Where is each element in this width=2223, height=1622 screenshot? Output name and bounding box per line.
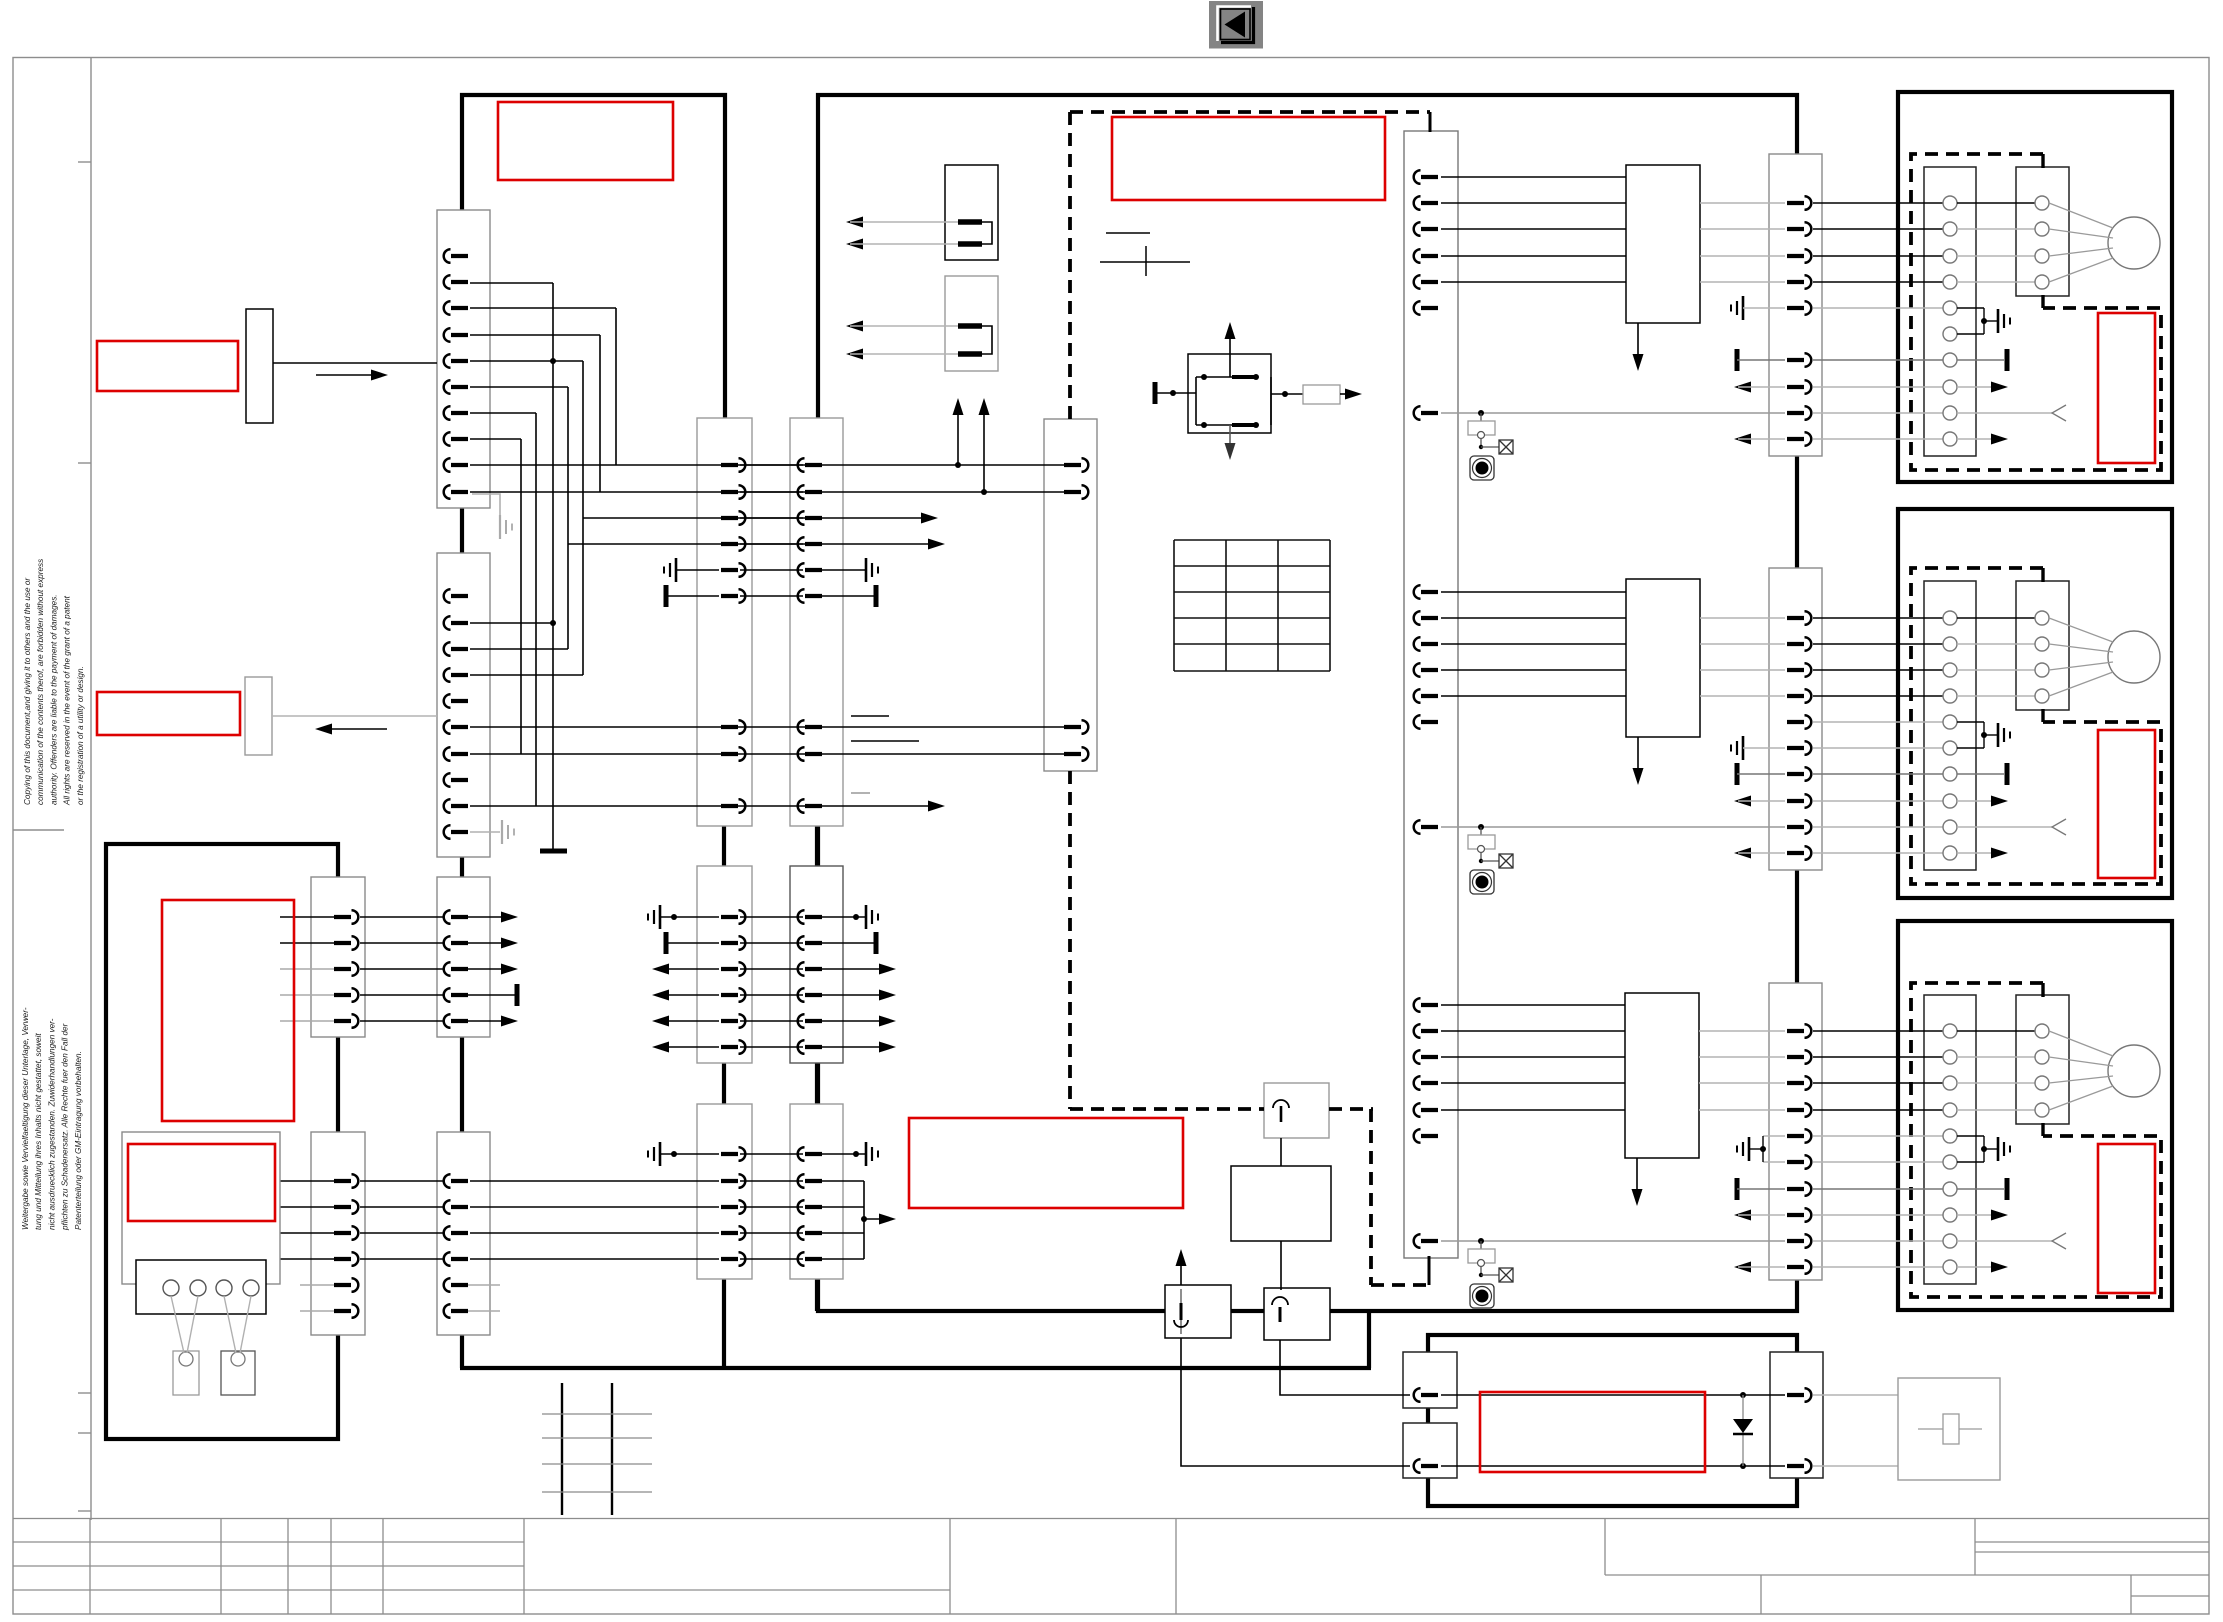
wire strip to pin circle r853 <box>1813 852 1943 854</box>
junction row465 <box>955 462 961 468</box>
junction v1-r361 <box>550 358 556 364</box>
wire row1207 C3-C4 <box>360 1206 444 1208</box>
pin circle A r748 <box>1943 741 1957 755</box>
svg-text:Weitergabe sowie Vervielfaelti: Weitergabe sowie Vervielfaeltigung diese… <box>21 1007 30 1230</box>
wire strip to pin circle r282 <box>1813 281 1943 283</box>
wire L1 to bottom connector <box>1181 1338 1410 1466</box>
pin S1R r387 <box>1787 380 1811 394</box>
pin S2R r748 <box>1787 741 1811 755</box>
junction bus M6 <box>861 1216 867 1222</box>
wire dashes bottom drop <box>1369 1109 1373 1285</box>
inner unit box (gray) <box>122 1132 280 1284</box>
connector strip MID <box>1044 419 1097 771</box>
pin S3R r1083 <box>1787 1076 1811 1090</box>
junction cluster (section 3) <box>1478 1238 1484 1244</box>
wire strip to pin circle r1110 <box>1813 1109 1943 1111</box>
wire row544 with arrow <box>568 543 937 545</box>
arrow left row995 <box>652 990 669 1001</box>
bottom relay box outline (center-bottom) <box>1428 1335 1797 1506</box>
pin S3R r1031 <box>1787 1024 1811 1038</box>
wire thick M4-M6 link <box>815 1061 819 1106</box>
arrow right row1021 <box>458 1020 510 1022</box>
relay K2 link <box>982 326 992 354</box>
label stub row741 <box>851 740 919 742</box>
pin circle B r282 <box>2035 275 2049 289</box>
wire row754 long <box>470 753 1066 755</box>
antenna coupler symbol top <box>1273 1100 1289 1108</box>
arrow below function box F3 <box>1636 1158 1638 1198</box>
connector A box (section 2) <box>1924 581 1976 870</box>
svg-text:nicht ausdruecklich zugestande: nicht ausdruecklich zugestanden. Zuwider… <box>47 1018 56 1230</box>
pin C4 r1311 <box>444 1304 468 1318</box>
pin S3R r1136 <box>1787 1129 1811 1143</box>
relay K2 contact b <box>958 351 982 357</box>
wire row518 M1-M2 gap <box>740 517 803 519</box>
wire row969 C1-C2 <box>360 968 444 970</box>
pin M1 r465 <box>721 458 745 472</box>
highlight red box R6 <box>128 1144 275 1221</box>
wire A1 pin439 feeder <box>470 438 521 440</box>
terminator right (section 3) <box>1957 1188 2004 1190</box>
wire bus vertical v5 <box>567 387 569 649</box>
fold mark tick y463 <box>78 462 91 464</box>
wire from mid-left connector (gray) <box>272 715 437 717</box>
wire strip to pin circle r1083 <box>1813 1082 1943 1084</box>
bottom connector right <box>1770 1352 1823 1478</box>
wire row806 with arrow <box>470 805 937 807</box>
pin circle A r1241 <box>1943 1234 1957 1248</box>
wire strip to pin circle r748 <box>1813 747 1943 749</box>
pin A2 r623 <box>444 616 468 630</box>
pin A1 r439 <box>444 432 468 446</box>
wire row1259 M5-M6 <box>740 1258 803 1260</box>
wire dashes left upper <box>1068 112 1072 419</box>
wire row492 long <box>470 491 1066 493</box>
back navigation button <box>1209 1 1263 49</box>
pin M5 r1207 <box>721 1200 745 1214</box>
pin circle A r282 <box>1943 275 1957 289</box>
wire ECU long to strip (section 3) <box>1441 1240 1785 1242</box>
connector strip C1 <box>311 877 365 1037</box>
wire row1181 long C4-M5 <box>470 1180 719 1182</box>
switch cluster (section 2) <box>1468 827 1499 863</box>
pin M2 r596 <box>798 589 822 603</box>
pin MID r754 <box>1064 747 1088 761</box>
pin A2 r806 <box>444 799 468 813</box>
terminator right (section 1) <box>1957 359 2004 361</box>
wire row1181 M5-M6 <box>740 1180 803 1182</box>
wire strip to pin circle r1031 <box>1813 1030 1943 1032</box>
terminator left of strip (section 1) <box>1735 349 1740 371</box>
pin C4 r1259 <box>444 1252 468 1266</box>
wire strip to pin circle r387 <box>1813 386 1943 388</box>
wires A to B rows (section 3) <box>1957 1030 2035 1032</box>
pin M3 r917 <box>721 910 745 924</box>
pin A1 r387 <box>444 380 468 394</box>
pin S2R r696 <box>1787 689 1811 703</box>
ground at A1 bottom (gray) <box>472 494 500 517</box>
wires function box to strip (section 3) <box>1699 1030 1785 1032</box>
pin circle A r827 <box>1943 820 1957 834</box>
wire thick A2 down-feed <box>460 855 464 1368</box>
pin S3R r1215 <box>1787 1208 1811 1222</box>
pin ECU r1110 <box>1414 1103 1438 1117</box>
arrow right b (section 1) <box>1957 438 2000 440</box>
wire to K2 contact b <box>846 349 863 360</box>
wire harness dashed box B3 <box>1911 983 2161 1297</box>
pin circle A r387 <box>1943 380 1957 394</box>
diode D1 <box>1742 1395 1744 1466</box>
arrow left of strip a (section 1) <box>1734 382 1751 393</box>
pin bottom-right r1395 <box>1787 1388 1811 1402</box>
ground left row1154 <box>648 1142 660 1166</box>
wire thick riser to ECU box <box>1367 1311 1371 1368</box>
wire strip to pin circle r1162 <box>1813 1161 1943 1163</box>
pin circle A r696 <box>1943 689 1957 703</box>
pin M3 r995 <box>721 988 745 1002</box>
svg-text:tung und Mitteilung ihres Inha: tung und Mitteilung ihres Inhalts nicht … <box>34 1033 43 1230</box>
arrow up from switch <box>1229 327 1231 377</box>
pin ECU r1136 <box>1414 1129 1438 1143</box>
wire strip to pin circle r696 <box>1813 695 1943 697</box>
wire to arrow <box>1340 393 1354 395</box>
pin S3R r1057 <box>1787 1050 1811 1064</box>
wire filter to coil 2 <box>1280 1241 1282 1290</box>
arrow up from row492 <box>983 403 985 492</box>
wire row518 with arrow <box>583 517 930 519</box>
pin ECU r256 <box>1414 249 1438 263</box>
wire dashes left lower <box>1068 771 1072 1109</box>
coil box L2 <box>1264 1288 1330 1340</box>
ground bracket right (section 2) <box>1957 721 1984 723</box>
copyright notice english (rotated) <box>23 559 85 806</box>
svg-text:authority. Offenders are liabl: authority. Offenders are liable to the p… <box>49 594 58 805</box>
pin C2 r943 <box>444 936 468 950</box>
pin C3 r1259 <box>334 1252 358 1266</box>
pin circle A r334 <box>1943 327 1957 341</box>
wire row969 into C1 <box>280 968 345 970</box>
pin C1 r1021 <box>334 1014 358 1028</box>
wire row492 M1-M2 gap <box>740 491 803 493</box>
ground bracket left of strip (section 3) <box>1763 1135 1785 1137</box>
arrow right row917 <box>458 916 510 918</box>
wire row1233 M6 out <box>822 1232 864 1234</box>
pin M1 r596 <box>721 589 745 603</box>
connector strip M4 <box>790 866 843 1063</box>
function box F2 <box>1626 579 1700 737</box>
wire row917 into C1 <box>280 916 345 918</box>
pin C2 r969 <box>444 962 468 976</box>
connector B box (section 1) <box>2016 167 2069 296</box>
pin S1R r203 <box>1787 196 1811 210</box>
wire row1259 M6 out <box>822 1258 864 1260</box>
pin S2R r670 <box>1787 663 1811 677</box>
wire A1 pin387 feeder <box>470 386 568 388</box>
connector strip S2R <box>1769 568 1822 870</box>
ground left row917 <box>648 905 660 929</box>
arrow right row943 <box>458 942 510 944</box>
wire strip to pin circle r801 <box>1813 800 1943 802</box>
wire row570 M1-M2 <box>740 569 803 571</box>
wire strip to pin circle r1241 <box>1813 1240 1943 1242</box>
pin S2R r722 <box>1787 715 1811 729</box>
relay K2 contact a <box>958 323 982 329</box>
pin circle A r670 <box>1943 663 1957 677</box>
wire harness dashed box B1 <box>1911 154 2161 470</box>
pin S2R r853 <box>1787 846 1811 860</box>
wire thick M6 down-feed <box>815 1277 819 1311</box>
arrow left of strip b (section 3) <box>1734 1262 1751 1273</box>
pin circle A r1162 <box>1943 1155 1957 1169</box>
highlight red box R4 <box>97 692 240 735</box>
pin A1 r361 <box>444 354 468 368</box>
wire A2 pin623 feeder <box>470 622 553 624</box>
wire strip to pin circle r644 <box>1813 643 1943 645</box>
svg-text:pflichten zu Schadenersatz. Al: pflichten zu Schadenersatz. Alle Rechte … <box>61 1023 70 1231</box>
motor M2 <box>2108 631 2160 683</box>
terminator left of strip (section 3) <box>1735 1178 1740 1200</box>
wire strip to pin circle r439 <box>1813 438 1943 440</box>
wire row995 M3-M4 <box>740 994 803 996</box>
wire A1 pin361 feeder <box>470 360 583 362</box>
arrow left of strip a (section 3) <box>1734 1210 1751 1221</box>
wire bus vertical v2 <box>615 308 617 465</box>
pin bottom-left lower <box>1414 1459 1438 1473</box>
resistor in switch output <box>1303 385 1340 404</box>
lamp connector pin 1 <box>163 1280 179 1296</box>
pin ECU r1057 <box>1414 1050 1438 1064</box>
left margin line <box>90 58 92 1521</box>
wire row1207 M5-M6 <box>740 1206 803 1208</box>
pin circle A r1189 <box>1943 1182 1957 1196</box>
pin S1R r282 <box>1787 275 1811 289</box>
pin circle A r439 <box>1943 432 1957 446</box>
main ECU box outline (center) <box>818 95 1797 1311</box>
wire A1 pin308 feeder <box>470 307 616 309</box>
pin C1 r995 <box>334 988 358 1002</box>
direction arrow annotation <box>316 374 380 376</box>
pin M4 r995 <box>798 988 822 1002</box>
wire row727 long <box>470 726 1066 728</box>
ground at A2 bottom (gray) <box>470 831 500 833</box>
wire row1233 M5-M6 <box>740 1232 803 1234</box>
arrow up from L1 <box>1180 1255 1182 1285</box>
highlight red box section 3 <box>2098 1144 2155 1293</box>
motor M1 <box>2108 217 2160 269</box>
arrow right row1047 <box>822 1046 888 1048</box>
pin M1 r570 <box>721 563 745 577</box>
arrow from M6 bus <box>864 1218 888 1220</box>
wire row1233 C3-C4 <box>360 1232 444 1234</box>
connector strip A2 <box>437 553 490 857</box>
ground left row570 <box>664 558 676 582</box>
ground right row917 <box>822 916 866 918</box>
pin circle A r1215 <box>1943 1208 1957 1222</box>
wire ECU long to strip (section 1) <box>1441 412 1785 414</box>
alignment mark line <box>1106 232 1150 234</box>
connector A box (section 3) <box>1924 995 1976 1284</box>
pin M4 r917 <box>798 910 822 924</box>
pin circle B r670 <box>2035 663 2049 677</box>
dash stub notch B3 <box>2041 1123 2044 1136</box>
direction arrow annotation left <box>315 724 332 735</box>
wire row1021 C1-C2 <box>360 1020 444 1022</box>
stub row1285 C4 right gray <box>458 1284 500 1286</box>
pin MID r492 <box>1064 485 1088 499</box>
pin A2 r832 <box>444 825 468 839</box>
pin M6 r1181 <box>798 1174 822 1188</box>
pin circle A r229 <box>1943 222 1957 236</box>
motor leads (section 3) <box>2049 1031 2113 1110</box>
wire bottom row2 (r1466) <box>1441 1465 1785 1467</box>
dash stub top B2 <box>2041 568 2044 582</box>
pin ECU r229 <box>1414 222 1438 236</box>
coil symbol L2 <box>1272 1297 1288 1305</box>
terminator right (section 2) <box>1957 773 2004 775</box>
wire strip to pin circle r670 <box>1813 669 1943 671</box>
pin MID r465 <box>1064 458 1088 472</box>
pin circle A r203 <box>1943 196 1957 210</box>
function box F1 <box>1626 165 1700 323</box>
connector B box (section 3) <box>2016 995 2069 1124</box>
wire strip to pin circle r1189 <box>1813 1188 1943 1190</box>
switch contact bottom <box>1196 424 1258 426</box>
ground right row1154 <box>822 1153 866 1155</box>
switch internal branch <box>1195 377 1197 425</box>
wire row995 into C1 <box>280 994 345 996</box>
arrow left of strip b (section 2) <box>1734 848 1751 859</box>
terminator left row943 <box>664 932 669 954</box>
pin M2 r544 <box>798 537 822 551</box>
stub row1311 C3 left gray <box>300 1310 345 1312</box>
pin M4 r1021 <box>798 1014 822 1028</box>
filament wires <box>171 1296 251 1353</box>
arrow down from switch (gray) <box>1229 425 1231 452</box>
arrow right a (section 3) <box>1957 1214 2000 1216</box>
pin C2 r1021 <box>444 1014 468 1028</box>
wire strip to pin circle r203 <box>1813 202 1943 204</box>
pin S2R r644 <box>1787 637 1811 651</box>
pin circle A r618 <box>1943 611 1957 625</box>
pin ECU r592 <box>1414 585 1438 599</box>
svg-text:Copying of this document,and g: Copying of this document,and giving it t… <box>23 578 32 805</box>
pin C4 r1233 <box>444 1226 468 1240</box>
pin M1 r518 <box>721 511 745 525</box>
wire strip to pin circle r1267 <box>1813 1266 1943 1268</box>
wire row465 long <box>470 464 1066 466</box>
wire row943 M3-M4 <box>740 942 803 944</box>
highlight red box R10 <box>1480 1392 1705 1472</box>
function box F3 <box>1625 993 1699 1158</box>
pin circle A r1136 <box>1943 1129 1957 1143</box>
bus right of M6 <box>863 1181 865 1259</box>
pin A1 r492 <box>444 485 468 499</box>
dash stub top B1 <box>2041 154 2044 168</box>
wire row943 into C1 <box>280 942 345 944</box>
svg-text:communication of the contents: communication of the contents therof, ar… <box>36 559 45 805</box>
pin M5 r1259 <box>721 1252 745 1266</box>
ground bracket right (section 1) <box>1957 307 1984 309</box>
wire thick bottom bus left <box>460 1366 1371 1370</box>
current sensor symbol L1 <box>1180 1289 1182 1334</box>
wire strip to pin circle r229 <box>1813 228 1943 230</box>
wire thick M1-M3 link <box>722 824 726 868</box>
pin S1R r229 <box>1787 222 1811 236</box>
wire bottom row1 (r1395) <box>1441 1394 1785 1396</box>
bulb right contact <box>231 1352 245 1366</box>
wires A to B rows (section 1) <box>1957 202 2035 204</box>
pin circle A r774 <box>1943 767 1957 781</box>
pin M4 r1047 <box>798 1040 822 1054</box>
wire A1 pin335 feeder <box>470 334 600 336</box>
arrow right b (section 2) <box>1957 852 2000 854</box>
fold mark tick y1511 <box>78 1510 91 1512</box>
pin M3 r1021 <box>721 1014 745 1028</box>
pin ECU r644 <box>1414 637 1438 651</box>
wire row1207 long C4-M5 <box>470 1206 719 1208</box>
svg-text:All rights are reserved in the: All rights are reserved in the event of … <box>63 595 72 806</box>
wire ECU to function box rows (section 2) <box>1441 591 1626 593</box>
pin circle B r256 <box>2035 249 2049 263</box>
arrow right row969 <box>822 968 888 970</box>
small connector mid-left <box>245 677 272 755</box>
wire row544 M1-M2 gap <box>740 543 803 545</box>
connector strip M5 <box>697 1104 752 1279</box>
indicator lamp X-box (section 1) <box>1499 440 1513 454</box>
pin circle A r360 <box>1943 353 1957 367</box>
relay K1 contact a <box>958 219 982 225</box>
connector strip S1R <box>1769 154 1822 456</box>
pin ECU r1083 <box>1414 1076 1438 1090</box>
pin C4 r1181 <box>444 1174 468 1188</box>
pin ECU r203 <box>1414 196 1438 210</box>
wire row1207 into C3 <box>280 1206 345 1208</box>
connector strip A1 <box>437 210 490 508</box>
pin ECU r696 <box>1414 689 1438 703</box>
pin C4 r1285 <box>444 1278 468 1292</box>
pin M6 r1259 <box>798 1252 822 1266</box>
pin S3R r1189 <box>1787 1182 1811 1196</box>
pin S1R r413 <box>1787 406 1811 420</box>
wire bus vertical v6 <box>535 413 537 806</box>
pin A2 r649 <box>444 642 468 656</box>
alignment cross <box>1100 261 1190 263</box>
pin ECU r1241 <box>1414 1234 1438 1248</box>
wire to buzzer r1466 (gray) <box>1813 1465 1898 1467</box>
pin ECU r1031 <box>1414 1024 1438 1038</box>
arrow right a (section 2) <box>1957 800 2000 802</box>
motor M3 <box>2108 1045 2160 1097</box>
arrow right a (section 1) <box>1957 386 2000 388</box>
dash entry to ECU strip bottom <box>1428 1256 1431 1285</box>
wire row943 C1-C2 <box>360 942 444 944</box>
pin C2 r995 <box>444 988 468 1002</box>
pin M5 r1154 <box>721 1147 745 1161</box>
switch contact top <box>1196 376 1258 378</box>
highlight red box section 2 <box>2098 730 2155 878</box>
dash entry to ECU strip <box>1429 112 1432 132</box>
highlight red box R11 <box>909 1118 1183 1208</box>
body box outline bottom-left <box>106 844 338 1439</box>
indicator lamp X-box (section 3) <box>1499 1268 1513 1282</box>
chassis ground left of strip (section 1) <box>1731 296 1743 320</box>
pin circle B r203 <box>2035 196 2049 210</box>
pin circle B r229 <box>2035 222 2049 236</box>
wire strip to pin circle r722 <box>1813 721 1943 723</box>
pin ECU r827 <box>1414 820 1438 834</box>
terminator right row596 <box>822 595 876 597</box>
wire row465 M1-M2 gap <box>740 464 803 466</box>
